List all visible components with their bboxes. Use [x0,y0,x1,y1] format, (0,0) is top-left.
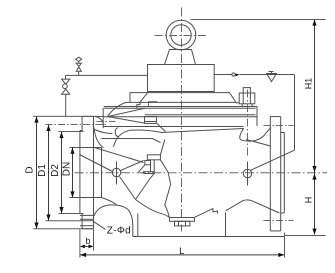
foot slot edge [137,214,139,237]
centerline left bolt [116,162,118,185]
extension line top circle [191,19,326,21]
centerline right flange upper bolt [264,125,294,127]
centerline left end cap [97,121,116,123]
seat bottom bar [144,172,155,174]
chamber wall S curve [114,130,161,147]
cover bolt base ticks [242,104,252,107]
left flange lower bolt hole top [80,214,94,216]
drain plug nut facets [179,221,186,226]
cover bolt nut facet left [242,93,244,104]
cover underside curve [95,130,113,134]
cover plate bottom [130,101,236,103]
extension line D2 top [59,131,84,133]
arrow D bottom [34,223,38,229]
right bolt circle [243,169,251,177]
svg-text:D2: D2 [50,164,61,177]
dimension line L [80,254,285,256]
body ledge line lower [102,139,161,143]
right flange raised face line [283,133,285,214]
arrow H1 bottom [312,166,316,172]
cover band right edge [256,107,258,127]
right flange top [270,116,280,118]
drain plug plate [170,218,195,222]
dimension line D1 [48,125,50,221]
neck top edge [94,115,104,117]
right flange bottom [270,230,280,232]
cover bolt nut facet right [249,93,251,104]
fan line D [108,117,145,124]
right flange raised face top [281,132,285,134]
left bolt circle [112,168,120,176]
arrow H bottom [312,229,316,235]
extension line D1 bottom [46,220,94,222]
right flange back [269,117,271,231]
right flange front [280,117,282,231]
svg-text:H: H [304,197,314,204]
pilot fitting circle [232,73,235,76]
trapezoid base under circle [165,50,196,65]
web diagonal right [251,150,295,170]
arrow b right [89,245,94,249]
web diagonal circle to seat [121,161,144,171]
pilot pipe right horizontal [214,74,232,76]
cover bolt nut [239,93,255,104]
dimension line DN [72,148,74,198]
inlet lower curve [102,198,117,205]
extension line D2 bottom [59,213,84,215]
svg-text:b: b [85,236,90,246]
left valve lower triangle [62,89,70,94]
outlet hump curve [226,200,280,213]
drain plug nut [175,221,190,226]
body bottom line [133,236,285,238]
outlet step [213,208,218,213]
branch valve stem low [78,71,80,75]
seat stem right [153,160,155,172]
outlet top wall curve [242,128,271,142]
left flange bottom [82,228,93,230]
vent funnel triangle [267,74,277,82]
hub to plug slant [157,123,166,131]
hub rect [145,117,157,124]
left flange back [93,116,95,228]
left flange top [82,115,93,117]
arrow D1 bottom [46,215,50,221]
seat guide box [147,155,160,160]
left valve stem top [65,75,67,79]
arrow b left [80,245,85,249]
left flange face upper [80,116,82,130]
fan line A curve [108,102,131,116]
cover bolt top [243,88,250,93]
inlet bore end wall [101,148,103,198]
arrow D2 bottom [59,207,63,213]
left flange raised front [79,131,81,214]
cover flange joint line [104,116,257,118]
right flange raised face bottom [281,212,285,214]
left flange lower bolt hole mid [80,218,94,220]
svg-text:D: D [25,166,36,173]
arrow H1 top [312,19,316,25]
bonnet rectangle [148,65,215,92]
centerline cover fitting / right bolt [247,90,249,159]
bolt lug arc [115,128,118,137]
centerline horizontal main [75,172,328,174]
guide column stub [149,102,157,107]
pilot pipe down run [294,75,296,150]
svg-text:L: L [179,246,184,257]
centerline vertical main [181,8,183,232]
dimension line H1 H [314,20,316,235]
inlet taper lower [80,155,113,172]
cover band top [104,106,257,108]
branch valve diamond [76,57,82,61]
pilot pipe right run [240,74,295,76]
arrow D1 top [46,125,50,131]
arrow L right [278,253,284,257]
extension line L right [284,233,286,258]
branch valve upper triangle [76,63,81,66]
leader line Z-Phi-d [94,222,106,230]
branch valve stem mid [78,61,80,63]
arrow H top [312,173,316,179]
dimension b connector [85,245,89,247]
diaphragm line upper [104,107,256,109]
centerline left flange upper bolt [46,124,108,126]
inlet inner corner radius [94,128,104,148]
inlet bore top line [70,147,102,149]
pilot pipe left riser [65,94,67,116]
neck fillet curve [95,116,104,125]
right foot edge [225,213,227,237]
left arch curve [94,205,133,237]
arrow D2 top [59,132,63,138]
vent funnel stem [271,72,273,74]
chamber ledge to outlet [161,129,244,133]
indicator circle inner [171,25,191,45]
left flange face lower [80,214,82,229]
cover transition curve [246,140,270,147]
cover plate right step [236,102,240,104]
web diagonal circle to foot [120,177,136,200]
arrow DN top [70,148,74,154]
seat left boss [145,161,151,165]
inlet bore bottom line [70,197,102,199]
outlet lower slant [195,208,213,217]
svg-text:H1: H1 [304,78,314,90]
left valve upper triangle [62,79,70,84]
bonnet base diagonal [137,93,148,108]
cover top plate [130,93,236,103]
arrow D top [34,116,38,122]
pilot pipe left horizontal [66,74,148,76]
plug lower contour [160,160,170,218]
cover band left edge [102,108,104,128]
seat boss slant [139,165,145,172]
left flange lower bolt hole bottom [80,225,94,227]
arrow DN bottom [70,191,74,197]
inlet taper upper [95,148,144,163]
vent funnel T bar [269,71,274,73]
extension line L left [79,230,81,258]
hub inner line [145,121,157,123]
pilot flow arrow [236,74,240,77]
cover flange bottom line [104,126,244,128]
extension line b right [93,230,95,251]
arrow L left [80,253,86,257]
seat stem left [150,160,152,172]
extension line flange top [34,115,94,117]
extension line bottom right [285,235,326,237]
dimension line D2 [61,132,63,214]
fan line B [108,108,145,116]
svg-text:Z-Φd: Z-Φd [107,226,131,237]
svg-text:DN: DN [62,162,73,176]
svg-text:D1: D1 [37,164,48,177]
centerline circle horizontal [155,35,209,37]
web diagonal lower left [136,200,170,218]
centerline right flange lower bolt [264,220,294,222]
left valve circle [63,84,68,89]
indicator circle outer [166,20,196,50]
plug lower left diagonal [136,174,155,200]
plug upper contour [160,140,164,155]
right bolt centerline solid [247,162,249,186]
dimension line D [36,117,38,229]
diaphragm line lower [145,114,256,116]
branch valve lower triangle [76,67,81,71]
extension line flange bottom [34,228,94,230]
outlet hook curve [240,129,244,141]
